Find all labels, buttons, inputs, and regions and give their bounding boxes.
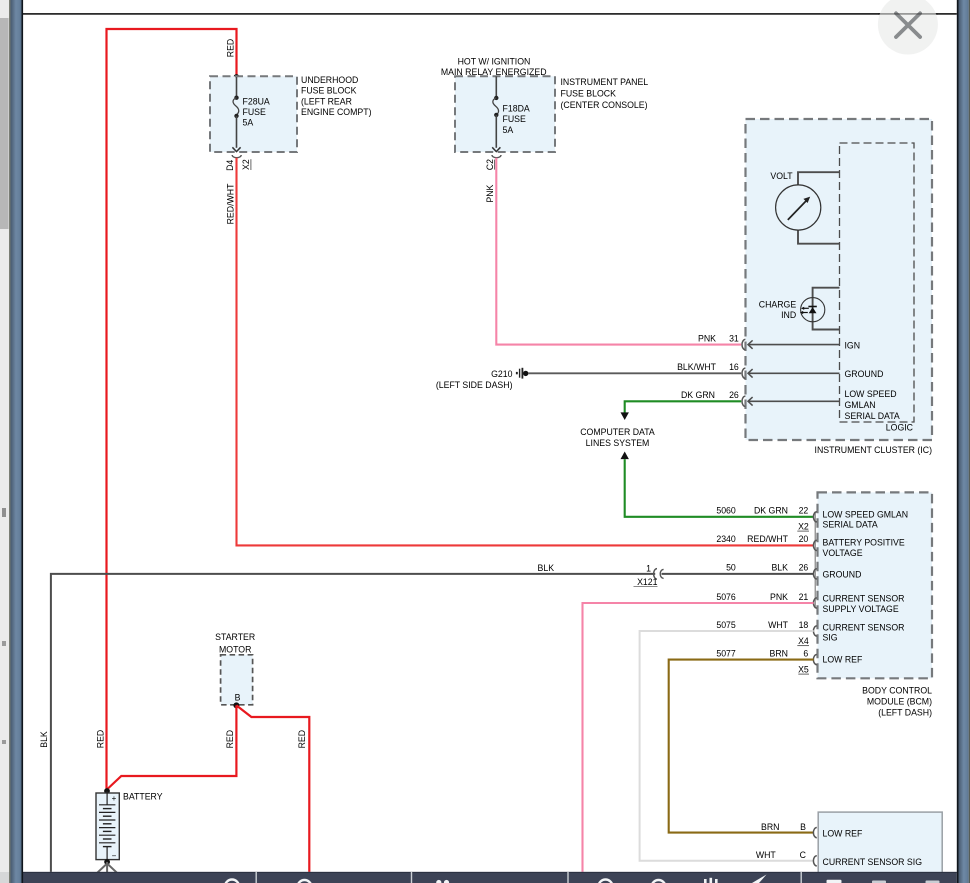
svg-text:−: − — [112, 852, 117, 861]
svg-text:SERIAL DATA: SERIAL DATA — [823, 520, 878, 530]
BCM pin 6 BRN — [716, 648, 862, 664]
svg-text:CURRENT SENSOR: CURRENT SENSOR — [823, 622, 905, 632]
svg-text:ENGINE COMPT): ENGINE COMPT) — [301, 107, 372, 117]
svg-text:X2: X2 — [798, 521, 809, 531]
svg-text:B: B — [235, 693, 241, 703]
svg-text:6: 6 — [803, 648, 808, 658]
svg-text:(LEFT SIDE DASH): (LEFT SIDE DASH) — [436, 380, 513, 390]
connector X4 label — [797, 636, 809, 646]
svg-text:PNK: PNK — [698, 333, 716, 343]
label PNK — [485, 184, 495, 202]
connector C2 label — [485, 159, 495, 170]
svg-text:BLK: BLK — [771, 563, 788, 573]
svg-text:FUSE: FUSE — [243, 107, 267, 117]
BCM pin 26 BLK — [726, 563, 861, 580]
BCM pin 20 RED/WHT — [716, 534, 905, 558]
svg-text:16: 16 — [729, 362, 739, 372]
svg-text:5076: 5076 — [716, 592, 736, 602]
svg-text:LOW SPEED GMLAN: LOW SPEED GMLAN — [823, 509, 909, 519]
wire RED battery positive feed — [107, 29, 240, 790]
svg-text:G210: G210 — [491, 369, 513, 379]
toolbar icons (partially visible) — [225, 880, 666, 883]
svg-text:FUSE BLOCK: FUSE BLOCK — [301, 86, 357, 96]
svg-text:50: 50 — [726, 563, 736, 573]
svg-text:26: 26 — [729, 390, 739, 400]
svg-text:GROUND: GROUND — [823, 569, 862, 579]
svg-text:CURRENT SENSOR SIG: CURRENT SENSOR SIG — [823, 857, 923, 867]
svg-text:RED: RED — [297, 730, 307, 748]
label RED (feed to fuse F28UA) — [225, 39, 235, 57]
bottom toolbar — [23, 872, 957, 883]
svg-text:BATTERY POSITIVE: BATTERY POSITIVE — [823, 538, 905, 548]
svg-text:(LEFT REAR: (LEFT REAR — [301, 96, 352, 106]
volt gauge — [770, 171, 839, 244]
svg-text:C: C — [800, 850, 806, 860]
svg-text:LINES SYSTEM: LINES SYSTEM — [586, 438, 650, 448]
svg-text:F18DA: F18DA — [503, 103, 530, 113]
wire RED starter B to battery — [107, 705, 237, 789]
svg-text:B: B — [800, 822, 806, 832]
svg-text:1: 1 — [646, 563, 651, 573]
svg-text:VOLT: VOLT — [770, 171, 793, 181]
svg-text:5077: 5077 — [716, 648, 736, 658]
svg-text:RED: RED — [225, 730, 235, 748]
connector X2 label — [241, 159, 251, 170]
svg-text:STARTER: STARTER — [215, 632, 255, 642]
svg-text:GMLAN: GMLAN — [845, 400, 876, 410]
battery — [96, 788, 163, 865]
svg-text:BODY CONTROL: BODY CONTROL — [862, 686, 932, 696]
BCM pin 18 WHT — [716, 620, 904, 643]
svg-text:WHT: WHT — [768, 620, 789, 630]
svg-text:FUSE: FUSE — [503, 114, 527, 124]
svg-text:22: 22 — [799, 506, 809, 516]
svg-text:INSTRUMENT CLUSTER (IC): INSTRUMENT CLUSTER (IC) — [815, 445, 933, 455]
svg-text:CHARGE: CHARGE — [759, 299, 797, 309]
wire RED/WHT circuit 2340 to BCM pin 20 — [237, 158, 814, 546]
svg-text:+: + — [112, 794, 117, 803]
label RED (starter-battery) — [225, 730, 235, 748]
svg-text:RED/WHT: RED/WHT — [225, 183, 235, 224]
svg-text:LOGIC: LOGIC — [886, 422, 913, 432]
svg-text:IGN: IGN — [845, 341, 861, 351]
svg-text:5A: 5A — [243, 118, 254, 128]
connector cup below fuse F18DA — [492, 155, 501, 158]
BCM pin 21 PNK — [716, 592, 904, 614]
BCM connector X2 body line — [814, 512, 816, 609]
svg-text:MODULE (BCM): MODULE (BCM) — [867, 697, 932, 707]
computer data lines system reference — [580, 427, 655, 448]
IC pin 31 IGN — [698, 333, 860, 350]
hot with ignition header — [441, 56, 547, 77]
svg-text:BLK: BLK — [538, 563, 555, 573]
wire WHT circuit 5075 BCM pin 18 to sensor pin C — [640, 631, 814, 861]
label RED (starter feed) — [297, 730, 307, 748]
svg-text:DK GRN: DK GRN — [681, 390, 715, 400]
IC pin 16 GROUND — [677, 362, 883, 379]
label RED/WHT — [225, 183, 235, 224]
svg-text:SUPPLY VOLTAGE: SUPPLY VOLTAGE — [823, 604, 899, 614]
connector cup below fuse F28UA — [232, 155, 241, 158]
label RED (battery feed) — [96, 730, 106, 748]
IC pin 26 LOW SPEED GMLAN SERIAL DATA — [681, 389, 900, 421]
instrument panel fuse block label — [561, 77, 649, 110]
connector X5 label — [798, 664, 809, 674]
ground G210 — [436, 368, 529, 390]
svg-text:LOW REF: LOW REF — [823, 655, 863, 665]
svg-text:COMPUTER DATA: COMPUTER DATA — [580, 427, 655, 437]
wire PNK circuit to IC pin 31 — [496, 158, 741, 345]
svg-text:5A: 5A — [503, 125, 514, 135]
svg-text:WHT: WHT — [756, 850, 777, 860]
wire BLK/WHT G210 to IC pin 16 — [528, 372, 741, 374]
svg-text:INSTRUMENT PANEL: INSTRUMENT PANEL — [561, 77, 649, 87]
svg-text:2340: 2340 — [716, 534, 736, 544]
charge indicator lamp — [759, 288, 840, 330]
wire BRN circuit 5077 BCM pin 6 to sensor pin B — [669, 660, 814, 833]
svg-text:SERIAL DATA: SERIAL DATA — [845, 411, 900, 421]
BCM pin 22 DK GRN — [716, 506, 908, 530]
svg-text:5075: 5075 — [716, 620, 736, 630]
svg-text:RED: RED — [96, 730, 106, 748]
svg-text:BRN: BRN — [770, 648, 788, 658]
svg-text:X5: X5 — [798, 664, 809, 674]
svg-text:C2: C2 — [485, 159, 495, 170]
wire PNK circuit 5076 to BCM pin 21 — [583, 603, 814, 872]
viewer right border strip — [957, 0, 970, 883]
svg-text:31: 31 — [729, 333, 739, 343]
svg-text:21: 21 — [799, 592, 809, 602]
starter motor — [215, 632, 255, 708]
BCM label — [862, 686, 932, 718]
logic box — [840, 143, 915, 432]
svg-text:PNK: PNK — [485, 184, 495, 202]
svg-text:(CENTER CONSOLE): (CENTER CONSOLE) — [561, 100, 648, 110]
pin D4 label — [225, 160, 235, 171]
svg-text:SIG: SIG — [823, 632, 838, 642]
svg-text:IND: IND — [781, 310, 796, 320]
svg-text:DK GRN: DK GRN — [754, 506, 788, 516]
svg-text:RED/WHT: RED/WHT — [747, 534, 788, 544]
wire DK GRN IC pin 26 to datalines reference — [621, 401, 742, 420]
instrument cluster box — [746, 119, 933, 440]
svg-text:(LEFT DASH): (LEFT DASH) — [878, 708, 932, 718]
svg-text:X121: X121 — [637, 577, 658, 587]
svg-text:UNDERHOOD: UNDERHOOD — [301, 75, 358, 85]
close button — [878, 0, 938, 55]
svg-text:PNK: PNK — [770, 592, 788, 602]
svg-text:RED: RED — [225, 39, 235, 57]
body control module box — [818, 492, 933, 678]
svg-text:MOTOR: MOTOR — [219, 644, 251, 654]
svg-text:LOW SPEED: LOW SPEED — [845, 389, 897, 399]
connector X2 label — [797, 521, 809, 531]
svg-text:20: 20 — [799, 534, 809, 544]
page scrollbar (left) — [0, 0, 9, 883]
svg-text:5060: 5060 — [716, 506, 736, 516]
svg-text:F28UA: F28UA — [243, 96, 270, 106]
svg-text:BLK/WHT: BLK/WHT — [677, 362, 717, 372]
fuse F28UA in underhood fuse block — [210, 76, 297, 152]
wire BLK circuit 50 to BCM pin 26 — [51, 574, 814, 872]
svg-text:26: 26 — [799, 563, 809, 573]
svg-text:LOW REF: LOW REF — [823, 828, 863, 838]
fuse F18DA in instrument panel fuse block — [455, 76, 555, 152]
svg-text:BLK: BLK — [39, 731, 49, 748]
svg-text:VOLTAGE: VOLTAGE — [823, 548, 863, 558]
battery ground — [97, 862, 117, 873]
diagram frame top border — [23, 13, 957, 15]
underhood fuse block label — [301, 75, 372, 117]
svg-text:X2: X2 — [241, 159, 251, 170]
battery current sensor box — [756, 812, 942, 882]
svg-text:BRN: BRN — [761, 822, 779, 832]
svg-text:HOT W/ IGNITION: HOT W/ IGNITION — [458, 56, 531, 66]
svg-text:MAIN RELAY ENERGIZED: MAIN RELAY ENERGIZED — [441, 67, 547, 77]
svg-text:X4: X4 — [798, 636, 809, 646]
svg-text:CURRENT SENSOR: CURRENT SENSOR — [823, 594, 905, 604]
svg-text:FUSE BLOCK: FUSE BLOCK — [561, 89, 617, 99]
svg-text:GROUND: GROUND — [845, 369, 884, 379]
svg-text:BATTERY: BATTERY — [123, 792, 163, 802]
svg-text:D4: D4 — [225, 160, 235, 171]
inline connector X121 pin 1 — [634, 563, 664, 587]
label BLK (left vertical) — [39, 731, 49, 748]
svg-text:18: 18 — [799, 620, 809, 630]
wire DK GRN circuit 5060 reference to BCM pin 22 — [621, 452, 814, 517]
wire RED starter B feed — [236, 705, 309, 872]
viewer left border strip — [9, 0, 23, 883]
